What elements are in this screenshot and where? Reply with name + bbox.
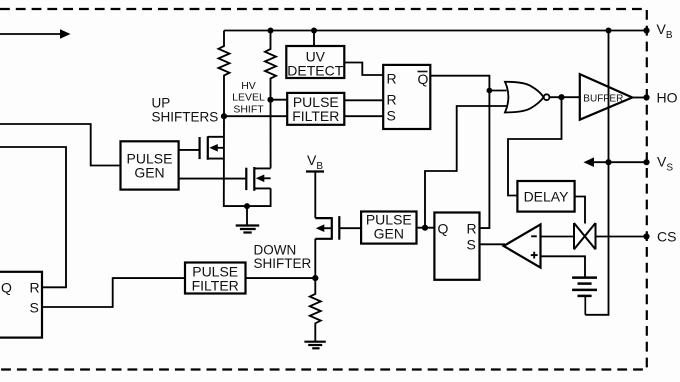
wire: comparator plus input to battery xyxy=(541,256,586,277)
svg-text:DETECT: DETECT xyxy=(287,63,343,79)
NOR gate U4 xyxy=(505,82,544,113)
wire: pulse gen U12 to M2 gate xyxy=(179,178,247,180)
wire: latch U6 Q to pulse gen U9 xyxy=(417,227,435,229)
svg-text:SHIFTER: SHIFTER xyxy=(254,256,312,271)
node: pulse gen output junction (dot) xyxy=(422,225,428,231)
svg-text:HV: HV xyxy=(241,80,256,92)
svg-text:SHIFTERS: SHIFTERS xyxy=(152,110,219,125)
svg-text:GEN: GEN xyxy=(134,164,164,180)
svg-text:SHIFT: SHIFT xyxy=(233,104,264,116)
wire: pulse filter to latch S xyxy=(344,115,383,117)
node A: up-shifter node (dot) xyxy=(221,113,227,119)
label comparator minus xyxy=(531,235,537,237)
input signal arrow xyxy=(0,29,71,39)
pulse gen U9 box xyxy=(361,212,416,244)
label HV LEVEL SHIFT xyxy=(232,80,265,116)
VB terminal xyxy=(643,27,649,33)
wire: NOR output branch to delay xyxy=(508,97,562,195)
label latch U3 Qbar overline xyxy=(418,71,428,73)
CS terminal xyxy=(643,233,649,239)
svg-text:UP: UP xyxy=(152,96,171,111)
wire: node A to pulse filter xyxy=(224,115,287,117)
wire: latch Qbar to NOR input xyxy=(430,76,506,91)
comparator U8 xyxy=(504,224,541,267)
resistor R1 xyxy=(219,31,230,117)
wire: buffer output to HO xyxy=(632,97,646,99)
svg-text:R: R xyxy=(387,92,397,108)
node: NOR output junction (dot) xyxy=(558,94,564,100)
latch U11 (input latch, clipped) xyxy=(0,272,42,338)
svg-text:S: S xyxy=(387,108,396,124)
transistor M2 (up shifter) xyxy=(246,100,270,206)
svg-text:BUFFER: BUFFER xyxy=(583,93,623,104)
resistor R2 xyxy=(265,31,276,100)
svg-text:DELAY: DELAY xyxy=(524,188,570,204)
pulse gen U12 box xyxy=(121,141,179,189)
svg-text:GEN: GEN xyxy=(374,226,404,242)
label comparator plus xyxy=(531,252,538,259)
node: rail junction to buffer supply xyxy=(606,28,612,34)
wire: NOR input junction down to latch U6 R xyxy=(480,91,490,229)
wire: bowtie to CS terminal xyxy=(596,236,647,238)
ground GND1 xyxy=(236,206,260,232)
svg-text:Q: Q xyxy=(418,71,429,87)
node: down shifter node (dot) xyxy=(312,275,318,281)
top VB rail wire xyxy=(224,30,647,32)
wire: CS line to comparator xyxy=(541,236,575,238)
wire: UV detect to latch R xyxy=(344,63,383,76)
svg-text:R: R xyxy=(387,71,397,87)
transistor M3 (down shifter) xyxy=(306,172,339,279)
svg-text:Q: Q xyxy=(1,280,12,296)
battery reference V1 xyxy=(572,278,597,315)
svg-text:S: S xyxy=(30,300,39,316)
wire: VB supply vertical to battery return xyxy=(585,31,608,315)
wire: comparator output to latch U6 S xyxy=(480,243,506,245)
latch U3 (R R S latch) xyxy=(383,65,430,129)
svg-text:FILTER: FILTER xyxy=(292,108,339,124)
wire: VS line with arrow xyxy=(588,161,647,163)
wire: NOR output to buffer xyxy=(550,96,580,98)
svg-text:S: S xyxy=(467,237,476,253)
node: rail junction to R2 xyxy=(268,28,274,34)
wire: pulse filter U10 output to down shifter node xyxy=(246,277,316,279)
wire: delay output to blanking switch xyxy=(575,197,585,224)
UV detect box xyxy=(286,46,344,78)
ground GND2 xyxy=(304,342,325,349)
svg-text:R: R xyxy=(467,221,477,237)
blanking switch (bowtie) xyxy=(574,223,596,249)
svg-text:R: R xyxy=(30,280,40,296)
node B: HV level shift node (dot) xyxy=(267,97,273,103)
pulse filter U10 box xyxy=(185,263,246,294)
node: rail junction to UV detect xyxy=(311,28,317,34)
buffer U5 triangle xyxy=(580,74,633,120)
wire: M3 gate to pulse gen U9 xyxy=(339,227,361,229)
wire: latch U11 R input xyxy=(0,147,66,287)
wire: pulse gen U12 to M1 gate xyxy=(179,149,200,151)
svg-text:FILTER: FILTER xyxy=(192,277,239,293)
wire: node B to pulse filter xyxy=(271,99,288,101)
pulse filter U2 box xyxy=(287,93,344,125)
transistor M1 (up shifter) xyxy=(200,116,247,206)
wire: NOR second input from latch U6 Q path xyxy=(425,106,507,228)
wire: latch U11 S to pulse filter U10 xyxy=(42,278,185,307)
HO terminal xyxy=(643,94,649,100)
resistor R3 xyxy=(310,278,321,342)
node: NOR input junction (dot) xyxy=(487,88,493,94)
delay box U7 xyxy=(517,181,574,212)
latch U6 (Q R S latch) xyxy=(434,213,479,280)
wire: pulse filter to latch R xyxy=(344,99,383,101)
node: VS junction (dot) xyxy=(605,159,611,165)
svg-text:CS: CS xyxy=(657,228,676,244)
node: shifter source junction (dot) xyxy=(244,203,250,209)
wire: input to pulse gen U12 xyxy=(0,124,121,166)
wire: UV detect supply stub xyxy=(313,31,315,47)
svg-text:Q: Q xyxy=(438,221,449,237)
svg-text:LEVEL: LEVEL xyxy=(232,92,265,104)
VS terminal xyxy=(643,159,649,165)
svg-text:HO: HO xyxy=(657,89,678,105)
